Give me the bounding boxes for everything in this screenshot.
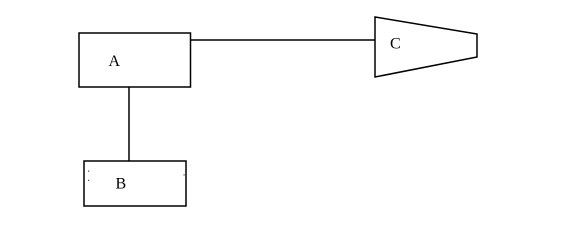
block A	[79, 33, 191, 87]
svg-text:C: C	[390, 36, 401, 53]
speck inside B right	[184, 174, 185, 175]
svg-text:B: B	[116, 176, 127, 193]
amplifier C	[375, 17, 477, 77]
speck inside B left upper	[88, 171, 89, 172]
wire A to B	[128, 87, 130, 161]
wire A to C	[191, 39, 376, 41]
block B	[84, 161, 186, 206]
svg-text:A: A	[109, 53, 121, 70]
speck inside B left lower	[88, 180, 89, 181]
